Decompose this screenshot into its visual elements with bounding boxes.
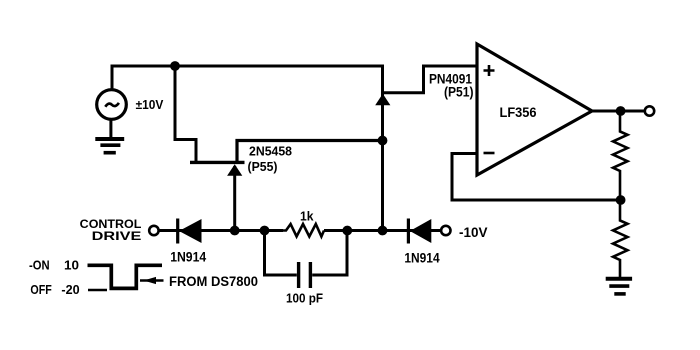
svg-text:-10V: -10V <box>459 224 488 240</box>
svg-text:(P51): (P51) <box>444 85 474 100</box>
svg-text:OFF: OFF <box>30 282 51 297</box>
svg-text:10: 10 <box>64 258 79 272</box>
svg-text:(P55): (P55) <box>248 160 278 174</box>
svg-text:2N5458: 2N5458 <box>249 144 292 158</box>
svg-text:LF356: LF356 <box>500 104 537 120</box>
svg-text:100 pF: 100 pF <box>286 290 323 305</box>
svg-text:1N914: 1N914 <box>170 249 206 265</box>
svg-text:1k: 1k <box>300 208 314 223</box>
svg-text:-ON: -ON <box>29 258 50 272</box>
svg-text:DRIVE: DRIVE <box>92 229 142 243</box>
svg-text:-20: -20 <box>61 282 79 297</box>
svg-text:FROM DS7800: FROM DS7800 <box>169 274 258 289</box>
svg-text:1N914: 1N914 <box>404 250 439 266</box>
svg-text:±10V: ±10V <box>136 97 164 112</box>
